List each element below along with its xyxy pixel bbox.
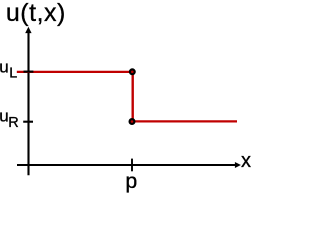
svg-text:p: p [125, 169, 137, 193]
red line uR level [132, 120, 237, 122]
tick p [131, 159, 133, 172]
x-axis [17, 164, 236, 166]
y-axis [27, 32, 29, 175]
x-axis arrowhead [235, 162, 241, 168]
svg-text:u(t,x): u(t,x) [6, 0, 66, 27]
red line uL level [17, 71, 133, 73]
red step vertical [131, 72, 133, 122]
svg-text:x: x [241, 150, 251, 172]
y-axis arrowhead [25, 27, 31, 33]
svg-text:L: L [9, 65, 17, 81]
svg-text:R: R [8, 115, 18, 131]
dot at uL [130, 69, 135, 74]
svg-text:u: u [0, 58, 9, 77]
tick uL [24, 71, 34, 73]
tick uR [23, 121, 33, 123]
dot at uR [130, 119, 135, 124]
